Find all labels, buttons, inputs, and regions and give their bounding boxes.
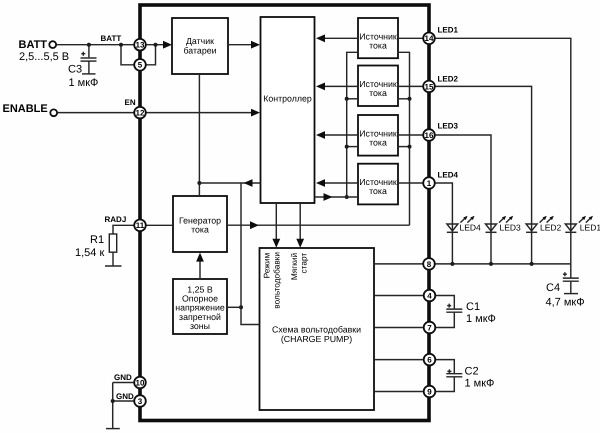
arrow down into charge pump 2 xyxy=(296,239,304,248)
wire controller to charge pump soft start input xyxy=(299,203,301,243)
arrow right on generator output row xyxy=(250,221,259,229)
block current source 2 (Источник тока) xyxy=(358,66,398,107)
wire C4 lead xyxy=(570,264,572,278)
block current source 3 (Источник тока) xyxy=(358,115,398,156)
svg-text:9: 9 xyxy=(427,387,432,396)
capacitor C1 xyxy=(446,304,462,313)
svg-text:Контроллер: Контроллер xyxy=(263,94,312,104)
node BATT-C3 junction xyxy=(87,43,91,47)
text current source 2 xyxy=(359,79,397,98)
text current source 1 xyxy=(359,31,397,50)
svg-text:тока: тока xyxy=(369,186,387,196)
svg-text:LED1: LED1 xyxy=(580,223,600,233)
block 1.25V bandgap reference xyxy=(173,279,227,334)
pin 11 xyxy=(134,220,146,232)
ground at GND pins xyxy=(106,428,120,430)
arrow into controller from battery sensor xyxy=(251,41,260,49)
svg-text:C2: C2 xyxy=(465,366,479,378)
block battery sensor (Датчик батареи) xyxy=(172,18,228,74)
wire C3 tap xyxy=(88,45,90,58)
arrow down into charge pump 1 xyxy=(272,239,280,248)
svg-text:тока: тока xyxy=(369,138,387,148)
capacitor C4 xyxy=(563,272,579,293)
pin 4 xyxy=(424,290,436,302)
terminal ENABLE xyxy=(50,109,57,116)
svg-text:1: 1 xyxy=(427,179,432,188)
wire GND pin 10 xyxy=(113,382,135,384)
node right bus junction 2 xyxy=(408,97,412,101)
node left bus bottom junction xyxy=(345,195,349,199)
svg-text:1 мкФ: 1 мкФ xyxy=(466,313,496,325)
LED LED4 xyxy=(447,216,475,233)
pin 1 xyxy=(423,177,435,189)
text reference block xyxy=(175,284,225,331)
wire pin 9 row xyxy=(374,377,454,391)
svg-text:12: 12 xyxy=(136,109,145,118)
svg-text:LED3: LED3 xyxy=(500,223,522,233)
wire controller left output row xyxy=(199,182,260,184)
wire reference to current generator xyxy=(199,257,201,279)
svg-text:Режим: Режим xyxy=(261,253,271,279)
wire BATT input xyxy=(56,44,166,46)
svg-text:EN: EN xyxy=(125,98,136,107)
text current generator xyxy=(179,216,221,235)
svg-text:BATT: BATT xyxy=(19,39,48,51)
svg-text:6: 6 xyxy=(427,356,432,365)
svg-text:тока: тока xyxy=(191,225,209,235)
svg-text:вольтодобавки: вольтодобавки xyxy=(271,252,281,309)
wire right bus of current sources xyxy=(398,52,410,225)
svg-text:C4: C4 xyxy=(546,282,560,294)
wire left bus of current sources xyxy=(347,52,358,197)
svg-text:Мягкий: Мягкий xyxy=(289,252,299,280)
wire left stub source 2 xyxy=(347,98,358,100)
wire pin 16 to LED3 xyxy=(398,135,491,264)
svg-text:8: 8 xyxy=(427,260,432,269)
svg-text:LED4: LED4 xyxy=(438,171,459,180)
svg-text:4,7 мкФ: 4,7 мкФ xyxy=(546,297,585,309)
wire pin 6 row xyxy=(374,360,454,374)
wire battery sensor down to current generator xyxy=(198,74,200,196)
ground at C4 xyxy=(564,293,578,295)
wire GND pin 3 xyxy=(113,400,135,402)
svg-text:LED4: LED4 xyxy=(460,223,482,233)
node right bus junction 3 xyxy=(408,145,412,149)
svg-text:14: 14 xyxy=(425,34,434,43)
pin 15 xyxy=(423,81,435,93)
svg-text:RADJ: RADJ xyxy=(105,215,127,224)
pin 7 xyxy=(424,322,436,334)
svg-text:батареи: батареи xyxy=(183,46,216,56)
arrow into controller row 2 xyxy=(316,83,325,91)
svg-text:15: 15 xyxy=(425,82,434,91)
svg-text:GND: GND xyxy=(116,392,134,401)
block current generator (Генератор тока) xyxy=(173,196,227,252)
svg-text:C3: C3 xyxy=(68,64,82,76)
svg-text:тока: тока xyxy=(369,88,387,98)
wire current generator output row xyxy=(227,224,410,226)
svg-text:зоны: зоны xyxy=(190,321,210,331)
wire controller right output row xyxy=(315,196,359,198)
node reference output junction xyxy=(239,305,243,309)
svg-text:3: 3 xyxy=(138,397,143,406)
node junction at y183 xyxy=(197,181,201,185)
svg-text:10: 10 xyxy=(136,378,145,387)
wire pin 14 to LED1 xyxy=(398,38,571,264)
block charge pump (Схема вольтодобавки) xyxy=(260,248,375,410)
terminal BATT xyxy=(49,41,56,48)
ground at C3 xyxy=(82,73,96,75)
wire RADJ pin 11 xyxy=(113,225,134,234)
wire pin 1 to LED4 xyxy=(398,183,452,264)
block controller (Контроллер) xyxy=(261,17,315,203)
pin 12 xyxy=(134,107,146,119)
svg-text:7: 7 xyxy=(427,323,432,332)
node left bus junction 2 xyxy=(345,97,349,101)
pin 8 xyxy=(423,258,435,270)
text battery sensor xyxy=(183,36,216,56)
wire current source 4 to controller xyxy=(323,182,359,184)
ground at R1 xyxy=(105,265,122,267)
svg-text:4: 4 xyxy=(427,291,432,300)
text mode input vertical xyxy=(261,252,281,309)
svg-text:C1: C1 xyxy=(466,301,480,313)
capacitor C2 xyxy=(446,369,462,376)
wire controller to charge pump mode input xyxy=(275,203,277,243)
wire pin 11 into current generator xyxy=(146,224,173,226)
wire GND down xyxy=(112,383,114,429)
LED LED2 xyxy=(526,216,554,233)
text soft start vertical xyxy=(289,252,309,280)
block current source 1 (Источник тока) xyxy=(358,18,398,58)
wire pin 15 to LED2 xyxy=(398,86,532,264)
svg-text:Схема вольтодобавки: Схема вольтодобавки xyxy=(272,325,361,335)
svg-text:2,5...5,5 В: 2,5...5,5 В xyxy=(19,51,69,63)
wire right stub source 3 xyxy=(398,146,410,148)
pin 3 xyxy=(134,395,146,407)
arrow EN into controller xyxy=(251,109,260,117)
wire current source 1 to controller xyxy=(323,37,359,39)
wire battery sensor to controller xyxy=(228,44,254,46)
svg-text:LED1: LED1 xyxy=(438,26,459,35)
node rail LED4 xyxy=(450,262,454,266)
svg-text:1 мкФ: 1 мкФ xyxy=(465,378,495,390)
block current source 4 (Источник тока) xyxy=(358,164,398,205)
pin 13 xyxy=(134,39,146,51)
LED LED3 xyxy=(486,216,514,233)
svg-text:1 мкФ: 1 мкФ xyxy=(69,77,99,89)
svg-text:11: 11 xyxy=(136,221,145,230)
wire vertical bus to charge pump xyxy=(241,183,260,325)
wire pin 7 row xyxy=(374,313,454,328)
wire R1 to ground xyxy=(112,252,114,265)
svg-text:старт: старт xyxy=(299,253,309,274)
wire pin 4 row xyxy=(374,296,454,309)
wire right stub source 2 xyxy=(398,98,410,100)
svg-text:1,54 к: 1,54 к xyxy=(75,247,104,259)
node loop end junction xyxy=(154,43,158,47)
LED LED1 xyxy=(565,216,593,233)
text charge pump xyxy=(272,325,361,345)
node loop start junction xyxy=(119,43,123,47)
pin 16 xyxy=(423,129,435,141)
svg-text:(CHARGE PUMP): (CHARGE PUMP) xyxy=(281,334,352,344)
node rail LED2 xyxy=(530,262,534,266)
text current source 3 xyxy=(359,129,397,148)
svg-text:5: 5 xyxy=(138,61,143,70)
wire current source 2 to controller xyxy=(323,85,359,87)
arrow into battery sensor xyxy=(163,41,172,49)
wire reference output xyxy=(227,306,241,308)
wire left stub source 3 xyxy=(347,146,358,148)
svg-text:тока: тока xyxy=(369,40,387,50)
svg-text:16: 16 xyxy=(425,131,434,140)
arrow right on controller output row xyxy=(324,193,333,201)
resistor R1 xyxy=(109,234,116,252)
svg-text:LED2: LED2 xyxy=(540,223,562,233)
capacitor C3 xyxy=(81,52,97,74)
arrow into controller row 3 xyxy=(316,131,325,139)
text current source 4 xyxy=(359,177,397,196)
svg-text:Датчик: Датчик xyxy=(186,36,214,46)
wire pin5 bypass loop xyxy=(121,45,156,65)
arrow into controller row 4 xyxy=(316,179,325,187)
svg-text:BATT: BATT xyxy=(101,34,122,43)
svg-text:13: 13 xyxy=(136,41,145,50)
arrow into controller row 1 xyxy=(316,34,325,42)
pin 10 xyxy=(134,377,146,389)
wire current source 3 to controller xyxy=(323,134,359,136)
svg-text:GND: GND xyxy=(114,373,132,382)
arrow up into current generator xyxy=(196,253,204,262)
pin 6 xyxy=(424,354,436,366)
IC boundary U1 xyxy=(140,5,429,421)
node GND junction xyxy=(111,399,115,403)
svg-text:ENABLE: ENABLE xyxy=(3,103,48,115)
pin 14 xyxy=(423,33,435,45)
arrow left on row 183 xyxy=(244,179,253,187)
pin 5 xyxy=(134,59,146,71)
node left bus junction 3 xyxy=(345,145,349,149)
wire pin 8 rail xyxy=(374,263,571,265)
svg-text:LED3: LED3 xyxy=(438,122,459,131)
node rail LED3 xyxy=(489,262,493,266)
pin 9 xyxy=(424,386,436,398)
svg-text:LED2: LED2 xyxy=(438,75,459,84)
wire ENABLE to pin 12 and controller xyxy=(57,112,254,114)
svg-text:R1: R1 xyxy=(90,234,104,246)
